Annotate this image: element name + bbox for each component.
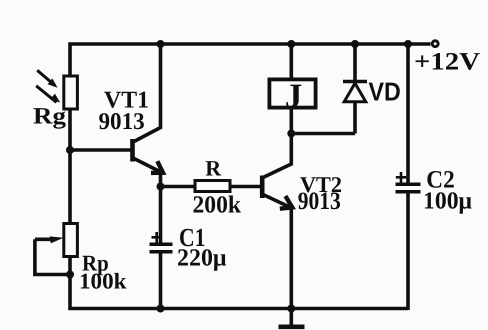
- svg-text:+12V: +12V: [414, 48, 480, 75]
- svg-text:J: J: [285, 76, 303, 115]
- svg-text:200k: 200k: [193, 192, 242, 219]
- svg-text:100μ: 100μ: [423, 188, 472, 215]
- svg-text:9013: 9013: [298, 188, 341, 215]
- svg-text:VD: VD: [369, 77, 401, 107]
- svg-text:Rg: Rg: [33, 104, 66, 130]
- svg-text:220μ: 220μ: [177, 244, 227, 271]
- svg-text:9013: 9013: [99, 109, 145, 135]
- svg-text:R: R: [205, 156, 222, 181]
- svg-text:100k: 100k: [79, 269, 127, 294]
